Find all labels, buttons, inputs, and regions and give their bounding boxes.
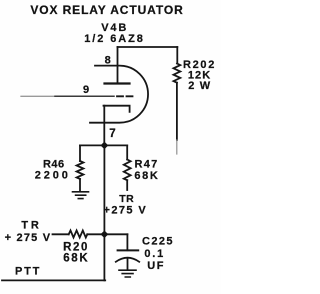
svg-text:+ 275 V: + 275 V <box>5 232 52 244</box>
svg-text:68K: 68K <box>134 170 159 182</box>
capacitor C225 curved plate <box>116 258 139 262</box>
wire R46 lead-in <box>79 145 81 161</box>
tube grid dashes <box>117 95 133 97</box>
tube cathode <box>104 106 130 112</box>
wire C225 top <box>104 233 127 235</box>
wire cathode lead pin 7 <box>103 106 105 146</box>
svg-text:TR: TR <box>119 193 134 205</box>
wire cathode node right <box>104 144 127 146</box>
wire R202 lead-in <box>176 47 178 64</box>
svg-text:R47: R47 <box>134 158 158 170</box>
svg-text:+275 V: +275 V <box>104 205 148 217</box>
wire C225 lead-in <box>126 234 128 250</box>
wire PTT line <box>2 279 105 281</box>
wire R47 lead-in <box>126 145 128 159</box>
tube envelope U1 <box>90 66 148 123</box>
wire R47 to TR supply <box>126 180 128 190</box>
wire R202 bottom lead <box>176 83 178 140</box>
svg-text:PTT: PTT <box>15 265 41 277</box>
wire main vertical <box>103 145 105 280</box>
resistor R20 <box>69 231 88 238</box>
wire grid lead pin 9 <box>21 95 58 97</box>
svg-text:UF: UF <box>147 260 165 272</box>
wire TR supply to R20 <box>53 233 69 235</box>
wire cathode node left <box>80 144 104 146</box>
wire C225 to ground <box>127 259 129 270</box>
op tube plate lead pin 8 <box>117 47 119 83</box>
tube plate bar <box>105 82 130 84</box>
wire R20 to junction <box>87 233 104 235</box>
svg-text:TR: TR <box>21 219 41 231</box>
capacitor C225 top plate <box>118 249 139 251</box>
svg-text:2200: 2200 <box>35 169 71 181</box>
junction node PTT/C225 <box>101 231 109 239</box>
svg-text:68K: 68K <box>63 252 89 264</box>
svg-text:VOX RELAY ACTUATOR: VOX RELAY ACTUATOR <box>30 3 183 17</box>
resistor R47 <box>124 160 131 181</box>
wire R46 to ground <box>79 179 81 192</box>
ground G1 <box>73 192 89 199</box>
svg-text:7: 7 <box>109 128 115 140</box>
junction node cathode <box>101 142 109 150</box>
svg-text:C225: C225 <box>142 236 174 248</box>
resistor R202 <box>174 64 181 83</box>
svg-text:0.1: 0.1 <box>144 248 165 260</box>
resistor R46 <box>77 161 84 179</box>
svg-text:9: 9 <box>83 84 89 96</box>
ground G2 <box>119 270 136 277</box>
svg-text:8: 8 <box>105 55 111 67</box>
svg-text:1/2 6AZ8: 1/2 6AZ8 <box>84 33 144 45</box>
wire plate top <box>118 46 178 48</box>
svg-text:2 W: 2 W <box>188 80 211 92</box>
